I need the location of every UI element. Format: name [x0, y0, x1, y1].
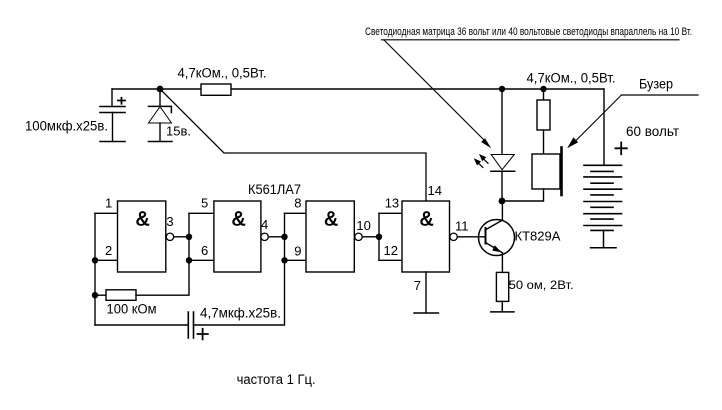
wire top supply rail: [112, 88, 604, 90]
node dot gate2 in lower: [186, 257, 192, 263]
ground of R4: [491, 301, 514, 312]
svg-text:12: 12: [384, 243, 398, 258]
LED HL1 triangle: [491, 155, 514, 170]
label leader arrow to LED: [384, 40, 484, 140]
svg-text:&: &: [420, 209, 434, 231]
gate DD1.3 output bubble: [355, 233, 362, 240]
svg-text:15в.: 15в.: [166, 124, 191, 139]
transistor VT1 circle: [479, 220, 515, 256]
gate DD1.4 output bubble: [450, 233, 457, 240]
transistor VT1 base bar: [485, 228, 487, 244]
ground pin 7: [414, 272, 439, 313]
resistor R2 4.7k body: [537, 100, 550, 130]
svg-text:8: 8: [294, 196, 301, 211]
LED HL1 bottom lead: [501, 172, 503, 202]
zener diode VD1 end bar: [149, 141, 173, 143]
svg-text:50 ом, 2Вт.: 50 ом, 2Вт.: [509, 278, 574, 292]
wire DD1.4 out to transistor base: [457, 236, 485, 238]
resistor R3 100k left lead: [95, 294, 106, 296]
resistor R3 right lead: [136, 260, 189, 295]
wire DD1.1 out to DD1.2: [174, 236, 189, 238]
resistor R2 4.7k top lead: [543, 89, 545, 100]
buzzer BA1 bottom lead: [502, 189, 544, 201]
capacitor C1 end bar: [100, 141, 125, 143]
svg-text:7: 7: [414, 278, 421, 293]
node dot gate1 pin2: [92, 257, 98, 263]
transistor VT1 emitter line: [486, 243, 503, 253]
label leader arrow to buzzer: [572, 95, 622, 145]
svg-text:1: 1: [105, 196, 112, 211]
buzzer BA1 body: [532, 154, 560, 189]
LED emission arrow 2: [478, 163, 483, 168]
gate DD1.2 output bubble: [261, 233, 268, 240]
capacitor C2 4.7µF plates: [188, 312, 193, 338]
svg-text:14: 14: [428, 183, 442, 198]
node dot collector junction: [499, 198, 506, 205]
wire C2 left: [95, 324, 188, 326]
node dot gate1 R3: [92, 292, 98, 298]
capacitor C1 100µF plates: [100, 107, 125, 113]
gate DD1.4 body: [402, 201, 450, 272]
transistor VT1 emitter arrow: [492, 245, 501, 252]
gate DD1.1 input stubs: [95, 213, 118, 260]
svg-text:5: 5: [201, 196, 208, 211]
wire diagonal to IC supply pin 14: [160, 89, 426, 201]
svg-text:10: 10: [356, 218, 370, 233]
transistor VT1 collector line: [486, 220, 503, 230]
wire battery positive drop: [603, 89, 605, 165]
svg-text:4: 4: [261, 217, 268, 232]
plus sign of C1: [118, 98, 125, 104]
node dot gate4 in: [376, 234, 382, 240]
svg-text:4,7кОм., 0,5Вт.: 4,7кОм., 0,5Вт.: [527, 71, 616, 86]
buzzer BA1 thick bar: [560, 148, 563, 196]
wire DD1.3 out to DD1.4: [362, 236, 379, 238]
svg-text:6: 6: [201, 243, 208, 258]
resistor R2 bottom lead: [543, 130, 545, 154]
gate DD1.3 input rail: [284, 213, 286, 260]
node dot gate3 in lower: [281, 257, 287, 263]
svg-text:&: &: [324, 209, 338, 231]
gate DD1.2 input stubs: [189, 213, 214, 260]
wire DD1.2 out to DD1.3: [268, 236, 284, 238]
zener diode VD1 triangle: [149, 107, 172, 123]
svg-text:9: 9: [294, 244, 301, 259]
gate DD1.3 input stubs: [285, 213, 307, 260]
svg-text:К561ЛА7: К561ЛА7: [248, 182, 301, 197]
LED HL1 top lead: [501, 89, 503, 155]
svg-text:&: &: [136, 209, 150, 231]
wire C2 right: [194, 260, 285, 325]
LED emission arrow 1: [484, 159, 489, 164]
capacitor C1 bottom lead: [112, 113, 114, 142]
transistor VT1 emitter lead: [501, 253, 503, 273]
wire collector riser: [501, 201, 503, 220]
capacitor C1 100µF lead: [111, 89, 113, 107]
LED HL1 cathode bar: [491, 170, 515, 172]
svg-text:4,7кОм., 0,5Вт.: 4,7кОм., 0,5Вт.: [178, 65, 267, 80]
svg-text:3: 3: [166, 214, 173, 229]
svg-text:Светодиодная матрица 36 вольт: Светодиодная матрица 36 вольт или 40 вол…: [365, 26, 692, 38]
gate DD1.3 body: [306, 201, 354, 272]
node dot gate3 in upper: [281, 234, 287, 240]
node dot LED rail: [499, 86, 505, 92]
gate DD1.4 input stubs: [379, 213, 402, 260]
plus sign of battery: [616, 143, 627, 155]
node dot gate2 in upper: [186, 234, 192, 240]
node dot top-left rail: [157, 86, 164, 93]
svg-text:2: 2: [105, 243, 112, 258]
resistor R4 50ohm body: [496, 272, 508, 301]
svg-text:13: 13: [385, 196, 399, 211]
svg-text:60 вольт: 60 вольт: [626, 124, 679, 139]
battery GB1 60V cells: [584, 165, 622, 230]
zener diode VD1 cathode bar with hook: [149, 106, 172, 112]
svg-text:4,7мкф.х25в.: 4,7мкф.х25в.: [200, 306, 281, 321]
svg-text:КТ829А: КТ829А: [515, 230, 562, 244]
label underline top: [382, 39, 680, 41]
gate DD1.4 input rail: [378, 213, 380, 260]
zener diode VD1 lead: [159, 89, 161, 106]
svg-text:100мкф.х25в.: 100мкф.х25в.: [25, 119, 108, 134]
svg-text:&: &: [232, 209, 246, 231]
svg-text:100 кОм: 100 кОм: [107, 302, 157, 317]
resistor R3 100k body: [106, 290, 136, 301]
svg-text:Бузер: Бузер: [639, 77, 673, 92]
gate DD1.1 input rail: [94, 213, 96, 325]
gate DD1.1 body: [118, 201, 166, 272]
label underline Buzer: [621, 94, 698, 96]
zener diode VD1 bottom lead: [159, 123, 161, 142]
ground of battery: [591, 230, 617, 247]
svg-text:частота 1 Гц.: частота 1 Гц.: [237, 372, 316, 387]
gate DD1.2 body: [214, 201, 261, 272]
resistor R1 4.7k body: [201, 84, 231, 95]
plus sign of C2: [198, 329, 208, 340]
svg-text:11: 11: [455, 219, 469, 234]
node dot R2 rail: [540, 86, 546, 92]
gate DD1.2 input rail: [188, 213, 190, 260]
gate DD1.1 output bubble: [166, 233, 173, 240]
